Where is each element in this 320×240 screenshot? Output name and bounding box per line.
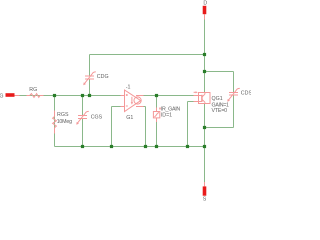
svg-text:CGS: CGS: [91, 114, 103, 120]
svg-text:G1: G1: [126, 115, 133, 121]
svg-text:10Meg: 10Meg: [57, 119, 72, 125]
svg-text:CDG: CDG: [97, 74, 109, 80]
svg-text:ID=1: ID=1: [161, 112, 172, 118]
svg-text:G: G: [0, 93, 3, 99]
svg-text:CDS: CDS: [241, 90, 251, 96]
svg-text:-1: -1: [126, 84, 131, 90]
svg-text:QG1: QG1: [212, 96, 223, 102]
svg-text:RG: RG: [29, 87, 37, 93]
svg-text:VTE=0: VTE=0: [212, 108, 228, 114]
svg-text:RGS: RGS: [57, 112, 69, 118]
svg-text:D: D: [203, 1, 207, 7]
svg-text:S: S: [203, 196, 207, 201]
